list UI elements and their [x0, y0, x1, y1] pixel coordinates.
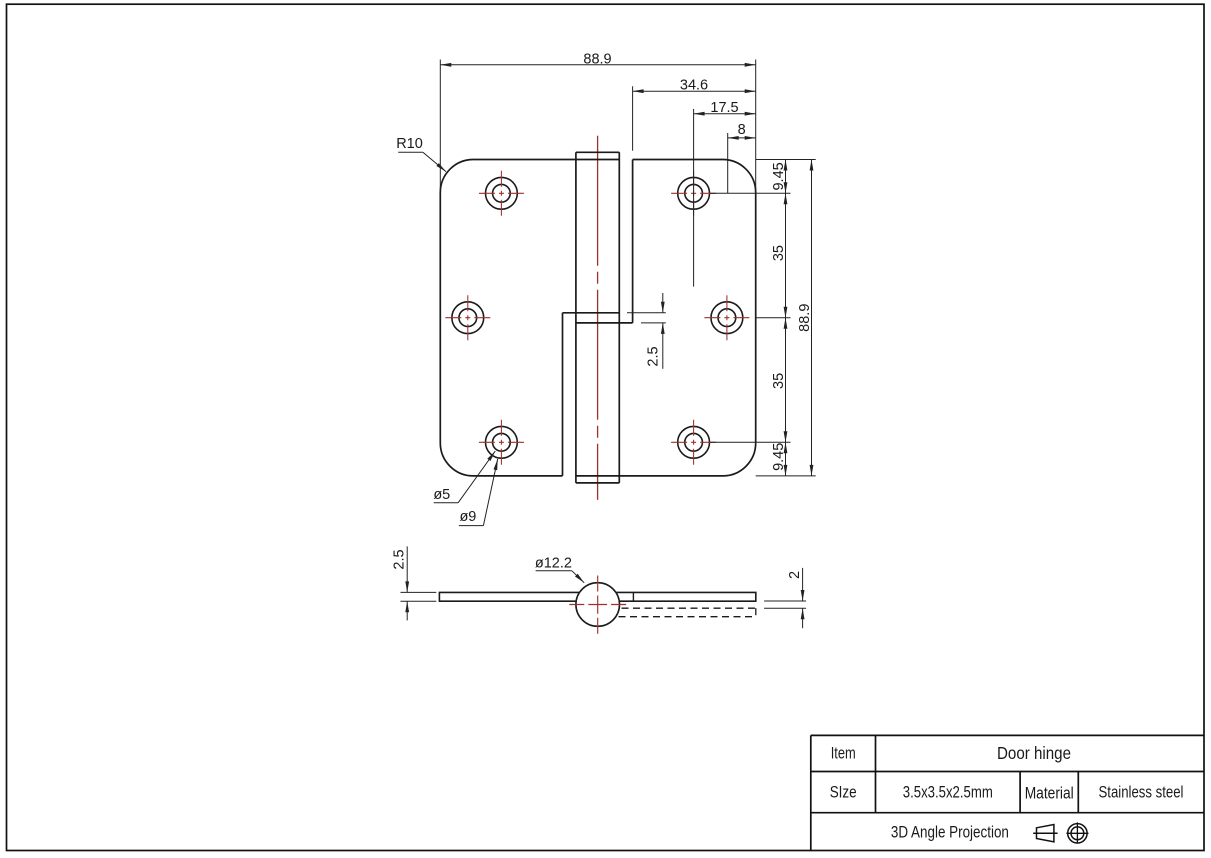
step line upper (top of lower knuckle notch) — [563, 312, 620, 314]
dimension 2.5 gap: dimension line with arrows — [661, 293, 665, 369]
right chained dims: extension line bottom edge — [756, 475, 816, 477]
title block column divider after size value — [1019, 772, 1021, 813]
svg-text:17.5: 17.5 — [710, 100, 738, 116]
svg-text:Material: Material — [1025, 784, 1074, 803]
dimension 35 lower: value text — [771, 373, 787, 389]
knuckle left vertical line — [575, 152, 577, 483]
left leaf outline (top edge, rounded corners, left edge, bottom edge) — [440, 0, 619, 476]
dimension 17.5: dimension line with arrows — [694, 112, 756, 116]
knuckle top cap line — [576, 151, 619, 153]
knuckle red center line (dash-dot) — [597, 136, 599, 500]
dimension 35 upper: value text — [771, 245, 787, 261]
dimension 2 offset: extension lines — [764, 601, 806, 608]
svg-text:88.9: 88.9 — [583, 51, 611, 67]
title block column divider after Material — [1077, 772, 1079, 813]
title block row divider 2 — [811, 812, 1204, 814]
dimension 17.5: value text — [710, 100, 738, 116]
svg-text:88.9: 88.9 — [797, 304, 813, 332]
side view right leaf strip — [616, 592, 756, 601]
svg-text:ø9: ø9 — [459, 509, 476, 525]
label R10: leader line with arrow — [398, 152, 446, 171]
dimension 88.9 top: value text — [583, 51, 611, 67]
red center mark crosshair of bottom-left hole — [479, 420, 524, 465]
right chained dims: extension line top hole — [710, 192, 791, 194]
svg-text:ø5: ø5 — [433, 487, 450, 503]
left leaf inner right edge (lower half) — [562, 313, 564, 476]
svg-text:Door hinge: Door hinge — [997, 743, 1071, 763]
label ø12.2: text — [535, 556, 572, 572]
side view red center mark of barrel — [569, 576, 626, 634]
right chained dims 9.45/35/35/9.45: dimension line with arrows — [784, 160, 788, 476]
dimension 2 offset: dimension line with arrows — [801, 568, 805, 628]
label ø5: leader line with arrow — [434, 451, 496, 503]
title block outer top line — [811, 734, 1204, 736]
label ø9: leader line with arrow — [459, 459, 498, 526]
svg-text:9.45: 9.45 — [771, 162, 787, 190]
dimension 88.9 right: dimension line with arrows — [810, 160, 814, 476]
dimension 2.5 thickness: dimension line with arrows — [405, 546, 409, 620]
dimension 2.5 gap: extension lines — [627, 313, 666, 323]
screw hole bottom-right (outer ø9 circle + inner ø5 circle) — [678, 426, 710, 458]
title block left line — [810, 735, 812, 850]
dimension 9.45 lower: value text — [771, 443, 787, 471]
svg-text:35: 35 — [771, 245, 787, 261]
dimension 34.6: extension line — [632, 86, 634, 150]
dimension 8: value text — [738, 122, 746, 138]
right chained dims: extension line bottom hole — [710, 441, 791, 443]
dimension 8: extension line — [727, 133, 729, 193]
red center mark crosshair of top-right hole — [671, 171, 716, 216]
red center mark crosshair of middle-right hole — [704, 295, 749, 340]
svg-text:ø12.2: ø12.2 — [535, 556, 572, 572]
screw hole bottom-left (outer ø9 circle + inner ø5 circle) — [486, 426, 518, 458]
title block column divider after Item/SIze — [875, 735, 877, 812]
right chained dims: extension line middle hole — [756, 317, 791, 319]
dimension 88.9 top: dimension line with arrows — [440, 63, 755, 67]
screw hole top-left (outer ø9 circle + inner ø5 circle) — [486, 177, 518, 209]
dimension 9.45 upper: value text — [771, 162, 787, 190]
dimension 2 offset: value text — [787, 571, 803, 579]
title block cell text Material — [1025, 784, 1074, 803]
right chained dims: extension line top edge — [756, 159, 816, 161]
dimension 2.5 thickness: value text — [391, 549, 407, 569]
svg-text:3D Angle Projection: 3D Angle Projection — [891, 822, 1009, 841]
title block cell text 3.5x3.5x2.5mm — [903, 782, 993, 801]
dimension 34.6: dimension line with arrows — [633, 89, 756, 93]
svg-text:SIze: SIze — [830, 782, 857, 801]
title block cell text Door hinge — [997, 743, 1071, 763]
svg-text:9.45: 9.45 — [771, 443, 787, 471]
svg-text:R10: R10 — [396, 136, 423, 152]
svg-text:34.6: 34.6 — [680, 78, 708, 94]
title block cell text Item — [831, 744, 856, 763]
third angle projection symbol: cone front view circles with center lines — [1066, 822, 1088, 843]
screw hole top-right (outer ø9 circle + inner ø5 circle) — [678, 177, 710, 209]
step line lower (bottom of upper knuckle notch) — [576, 322, 633, 324]
svg-text:Item: Item — [831, 744, 856, 763]
label ø12.2: leader line with arrow — [536, 571, 585, 583]
svg-text:2: 2 — [787, 571, 803, 579]
side view barrel circle ø12.2 — [576, 583, 620, 627]
dimension 88.9 right: value text — [797, 304, 813, 332]
title block cell text SIze — [830, 782, 857, 801]
side view left leaf strip — [439, 592, 581, 601]
dimension 17.5: extension line through top-right hole — [693, 109, 695, 287]
label R10: text — [396, 136, 423, 152]
dimension 34.6: value text — [680, 78, 708, 94]
svg-text:8: 8 — [738, 122, 746, 138]
title block cell text 3D Angle Projection — [891, 822, 1009, 841]
red center mark crosshair of bottom-right hole — [671, 420, 716, 465]
screw hole middle-right (outer ø9 circle + inner ø5 circle) — [711, 302, 743, 334]
screw hole middle-left (outer ø9 circle + inner ø5 circle) — [452, 302, 484, 334]
svg-text:2.5: 2.5 — [391, 549, 407, 569]
dimension 88.9 top: extension lines — [440, 60, 755, 193]
label ø5: text — [433, 487, 450, 503]
red center mark crosshair of top-left hole — [479, 171, 524, 216]
knuckle right vertical line — [618, 152, 620, 483]
title block row divider 1 — [811, 771, 1204, 773]
dimension 2.5 gap: value text — [646, 346, 662, 366]
title block cell text Stainless steel — [1099, 782, 1184, 801]
label ø9: text — [459, 509, 476, 525]
right leaf inner left edge (upper half) — [632, 160, 634, 323]
right leaf outline (top edge, rounded corners, right edge, bottom edge) — [576, 160, 756, 476]
side view knuckle joint tick — [632, 592, 634, 601]
svg-text:3.5x3.5x2.5mm: 3.5x3.5x2.5mm — [903, 782, 993, 801]
third angle projection symbol: truncated cone side view — [1033, 825, 1057, 842]
svg-text:Stainless steel: Stainless steel — [1099, 782, 1184, 801]
red center mark crosshair of middle-left hole — [445, 295, 490, 340]
dimension 8: dimension line with arrows — [728, 136, 756, 140]
svg-text:35: 35 — [771, 373, 787, 389]
svg-text:2.5: 2.5 — [646, 346, 662, 366]
dimension 2.5 thickness: extension lines — [401, 592, 437, 601]
side view hidden (dashed) lowered leaf — [607, 608, 756, 617]
knuckle bottom cap line — [576, 482, 619, 484]
